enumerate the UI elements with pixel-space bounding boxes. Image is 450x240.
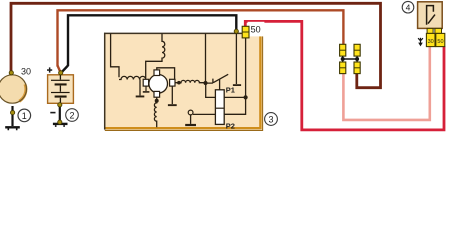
lower winding coil to case bbox=[154, 101, 156, 127]
generator G1 bbox=[0, 75, 27, 103]
wire left brush ground stub bbox=[145, 86, 147, 91]
brush top bbox=[154, 70, 160, 76]
wire black battery to ground bbox=[59, 103, 61, 122]
callout 1 bbox=[18, 109, 31, 122]
wire black bend into battery terminal bbox=[61, 66, 68, 73]
wire black generator to ground bbox=[11, 106, 13, 126]
label 50 with white backing bbox=[248, 22, 265, 37]
brush bottom bbox=[154, 91, 160, 97]
wire rust bend into battery terminal bbox=[58, 66, 61, 73]
connector terminal 50 bbox=[242, 26, 249, 38]
wire relay feed from terminal 50 bbox=[224, 38, 245, 114]
svg-text:50: 50 bbox=[437, 39, 443, 45]
wire relay right tap bbox=[224, 96, 245, 98]
ground generator bbox=[5, 126, 20, 128]
wire field brush ground stub bbox=[139, 80, 141, 96]
svg-text:30: 30 bbox=[428, 39, 434, 45]
wire red terminal 50 to ignition switch bbox=[245, 21, 444, 129]
wire rust battery + feed to left connector column bbox=[58, 10, 344, 66]
shunt winding coil bbox=[146, 34, 165, 79]
battery GB1 body bbox=[48, 75, 74, 104]
node battery terminal dot bbox=[59, 71, 63, 75]
wire black battery to starter terminal 30 bbox=[68, 15, 236, 66]
node starter terminal 30 dot bbox=[234, 29, 238, 33]
brush right bbox=[170, 79, 175, 86]
battery plus sign bbox=[47, 69, 52, 71]
ignition switch terminal 30 block bbox=[426, 33, 435, 46]
callout 3 bbox=[265, 113, 278, 126]
svg-text:2: 2 bbox=[69, 110, 74, 120]
node generator terminal dot bbox=[9, 71, 13, 75]
callout 2 bbox=[66, 109, 79, 122]
node left column dot bbox=[341, 57, 345, 61]
connector pair lower right column bbox=[354, 62, 360, 74]
node battery lower dot bbox=[58, 103, 62, 107]
label 30 generator terminal bbox=[20, 66, 34, 76]
starter box U1 bbox=[104, 33, 262, 130]
ground starter relay bbox=[193, 113, 215, 115]
ignition switch symbol bbox=[427, 6, 434, 25]
connector pair upper right column bbox=[354, 44, 360, 56]
node battery ground dot bbox=[58, 120, 62, 124]
node dot right of brush bbox=[177, 81, 181, 85]
node relay feed dot bbox=[244, 95, 248, 99]
wire top brush loop to right brush bbox=[157, 68, 175, 80]
wire right brush ground stub bbox=[171, 86, 173, 104]
wire link between columns bbox=[343, 56, 357, 62]
series winding coil bbox=[175, 80, 205, 82]
node generator ground dot bbox=[11, 111, 15, 115]
wire terminal 30 drop to fixed contact bbox=[235, 34, 237, 85]
ignition switch connector stubs bbox=[427, 28, 433, 33]
battery minus sign bbox=[50, 112, 55, 114]
ground battery bbox=[53, 123, 68, 125]
wire relay plunger link bbox=[219, 79, 221, 90]
relay windings box bbox=[215, 90, 224, 125]
field winding coil bbox=[119, 76, 146, 79]
wire junction to relay left tap bbox=[206, 83, 216, 97]
switch fixed contact bar bbox=[233, 84, 241, 86]
node switch junction dot bbox=[203, 81, 207, 85]
wire inner left drop to field winding bbox=[111, 34, 119, 78]
battery cells bbox=[59, 73, 61, 104]
svg-text:P1: P1 bbox=[226, 85, 235, 94]
svg-text:3: 3 bbox=[268, 114, 273, 124]
wire switch junction riser bbox=[205, 34, 207, 84]
connector pair upper left column bbox=[340, 44, 346, 56]
arrow to other circuits bbox=[420, 38, 422, 44]
ignition switch terminal 50 block bbox=[436, 33, 445, 46]
svg-text:P2: P2 bbox=[226, 121, 235, 130]
switch moving contact bbox=[206, 74, 229, 83]
wire pink connector column to ignition switch bbox=[343, 47, 429, 120]
svg-text:4: 4 bbox=[406, 3, 411, 13]
svg-text:30: 30 bbox=[21, 66, 31, 76]
node right column dot bbox=[355, 57, 359, 61]
ignition switch box bbox=[418, 2, 443, 29]
connector pair lower left column bbox=[340, 62, 346, 74]
wire bottom brush to lower coil bbox=[156, 97, 158, 100]
motor armature M bbox=[149, 75, 168, 94]
node lower junction dot bbox=[155, 99, 159, 103]
brush left bbox=[143, 79, 148, 86]
wire maroon generator B+ to connector column bbox=[11, 3, 381, 87]
callout 4 bbox=[402, 1, 414, 13]
svg-text:1: 1 bbox=[22, 111, 27, 121]
svg-text:50: 50 bbox=[251, 24, 261, 34]
